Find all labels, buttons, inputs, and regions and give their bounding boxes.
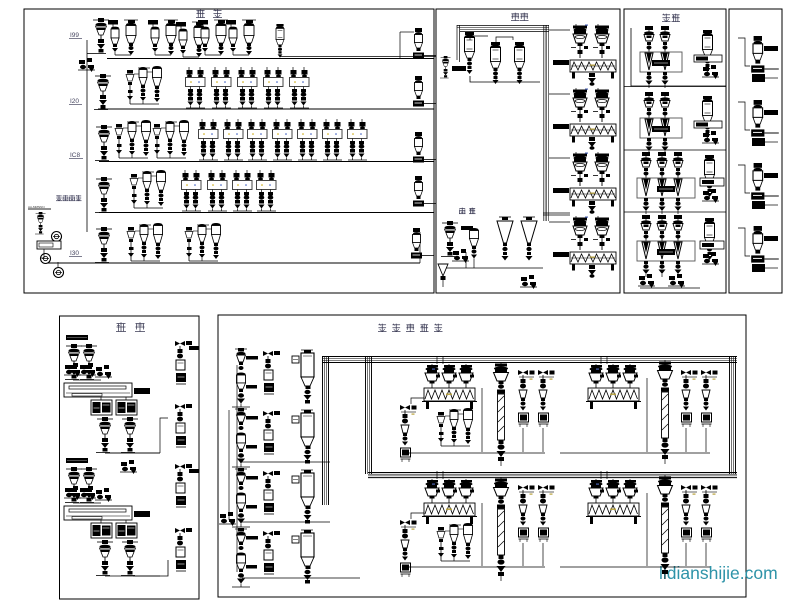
mill unit U4-2 (208, 170, 228, 211)
section box: crushing (fen sui) (24, 9, 434, 293)
wire mod row3 (624, 211, 726, 213)
wire hp3 link (549, 157, 570, 159)
carb right label (189, 346, 199, 350)
post colA row3 (232, 468, 258, 527)
label yu liu xin zeng (reserved) (56, 195, 61, 197)
carb right unit RU4 (175, 528, 192, 571)
drop wires from bus H2 (436, 471, 438, 479)
title: tan hua (carbonization) (117, 323, 126, 325)
wire row5 bottom (45, 262, 420, 264)
svg-text:I30: I30 (70, 250, 79, 257)
wire row5 rise (419, 232, 421, 263)
feed group FG3b (153, 120, 189, 158)
crusher CR3 (176, 22, 206, 57)
mill unit U3-6 (323, 119, 343, 160)
bar box (37, 241, 61, 249)
V-cone hopper V1 (497, 217, 513, 261)
small cluster under row1 feeder (78, 58, 95, 72)
hp4 label box (553, 252, 569, 257)
tiny text line (28, 208, 51, 210)
reactor R1 (465, 32, 475, 74)
carbonization half 2 (66, 458, 88, 463)
utility unit UT2 (751, 100, 779, 137)
mod bottom unit MB2 (668, 274, 685, 288)
mod right cluster RC3 (705, 155, 715, 197)
post colA row1 (232, 348, 258, 407)
post-treatment half top (422, 364, 477, 409)
post colB row4 (263, 531, 280, 574)
carbonization half 1 (66, 335, 88, 340)
tall unit U1-5 (276, 24, 284, 58)
reactor bus vertical double (456, 25, 458, 60)
post left hwires (242, 461, 330, 463)
carb right unit RU2 (175, 404, 192, 447)
mill unit U3-5 (298, 119, 318, 160)
wire mod row1 (631, 28, 726, 86)
wire row2 bottom (98, 108, 434, 110)
mod unit M2 (640, 92, 682, 154)
post colC row4 (292, 530, 314, 584)
reactor bus top (457, 25, 549, 27)
bus V3 (729, 357, 731, 474)
bottom blob cluster (520, 275, 537, 289)
crusher CR5 (226, 20, 256, 55)
side unit S5 (411, 228, 434, 259)
post colA row2 (232, 408, 258, 467)
wire asphalt bottom (445, 267, 543, 269)
reaction mid feeder (440, 56, 451, 78)
asphalt feeder (441, 221, 458, 257)
side unit S4 (413, 176, 436, 207)
crusher CR2 (148, 20, 178, 55)
feed group FG3a (115, 120, 151, 158)
post left vwire (236, 365, 238, 572)
wire row1 left (86, 40, 88, 232)
bus V2 (365, 357, 367, 474)
feed group FG4 (130, 170, 166, 208)
wire left cluster (40, 249, 44, 258)
blower B1 (52, 232, 62, 242)
mod unit M1 (640, 26, 682, 88)
mill unit U2-5 (290, 67, 310, 108)
asphalt cyclone (470, 228, 479, 268)
side unit S3 (413, 132, 436, 163)
wire row4 bottom (99, 212, 434, 214)
svg-text:lidianshijie.com: lidianshijie.com (659, 563, 778, 583)
svg-text:IC8: IC8 (70, 152, 81, 159)
bus H1 (322, 356, 737, 358)
mill unit U2-1 (186, 67, 206, 108)
feed group FG2 (126, 66, 162, 104)
hopper pair HP2 (570, 88, 616, 150)
post colC row2 (292, 410, 314, 464)
svg-text:AA-MMNNN: AA-MMNNN (28, 205, 45, 209)
mill unit U4-4 (257, 170, 277, 211)
post colB row3 (263, 471, 280, 514)
hopper pair HP3 (570, 152, 616, 214)
title: cheng pin hou chu li (post-treatment) (378, 324, 386, 326)
wire row1 bottom (107, 58, 434, 60)
title: fen sui (crushing) (196, 9, 204, 11)
feeder F1-1 (92, 18, 109, 54)
hopper pair HP1 (570, 24, 616, 86)
reactor R3 (515, 42, 525, 84)
label li qing (asphalt) (459, 207, 465, 209)
mill unit U2-4 (264, 67, 284, 108)
reactor R2 (491, 42, 501, 84)
section box: modification (gai xing) (624, 9, 726, 293)
trunk bundle vertical (543, 25, 545, 221)
title: gai xing (modification) (662, 14, 670, 16)
post left stub (219, 512, 236, 526)
wire hp2 link (549, 93, 570, 95)
wire mod row2 (624, 149, 726, 151)
feed group FG5a (127, 223, 163, 261)
post colA row4 (232, 528, 258, 587)
post-treatment half bottom (422, 479, 477, 524)
blower B2 (41, 254, 51, 264)
mod bottom unit MB1 (638, 274, 655, 288)
floater cluster (120, 460, 137, 474)
carb right unit RU1 (175, 341, 192, 384)
bus V1 (322, 357, 324, 505)
section box: right utility column (729, 9, 782, 293)
feeder F3-1 (95, 125, 112, 161)
title: fan ying (reaction) (511, 13, 519, 15)
feeder small (35, 212, 46, 234)
section box: carbonization (tan hua) (60, 316, 200, 599)
mill unit U4-3 (233, 170, 253, 211)
post colC row3 (292, 470, 314, 524)
wire row3 bottom (99, 161, 434, 163)
feeder F4-1 (95, 177, 112, 213)
blower B3 (54, 268, 64, 278)
mod right cluster RC4 (705, 218, 715, 260)
wire row1 to side unit (399, 32, 401, 58)
utility unit UT1 (751, 36, 779, 73)
post colB row1 (263, 351, 280, 394)
mod right cluster RC2 (703, 96, 713, 138)
mill unit U4-1 (182, 170, 202, 211)
post colB row2 (263, 411, 280, 454)
svg-text:I99: I99 (70, 32, 79, 39)
post colC row1 (292, 350, 314, 404)
mill unit U3-7 (348, 119, 368, 160)
V-cone hopper V2 (521, 217, 537, 261)
bus H2 (368, 472, 737, 474)
mod right cluster RC1 (703, 30, 713, 72)
side unit S1 (413, 28, 436, 59)
crusher CR4 (198, 20, 228, 55)
wire reactors bottom (470, 76, 540, 82)
drop wires from bus H1 (436, 356, 438, 364)
mod unit M3 (637, 152, 695, 214)
side unit S2 (413, 76, 436, 107)
wire hp1 link (549, 29, 570, 31)
utility unit UT3 (751, 163, 779, 200)
asphalt filter triangle (438, 264, 448, 276)
mod unit M4 (637, 215, 695, 277)
mill unit U3-4 (273, 119, 293, 160)
utility unit UT4 (751, 226, 779, 263)
mill unit U3-2 (224, 119, 244, 160)
feed group FG5b (185, 223, 221, 261)
wire hp4 link (549, 221, 570, 223)
hp2 label box (553, 124, 569, 129)
feeder F2-1 (94, 74, 111, 110)
carb right label2 (189, 469, 199, 473)
reaction mid label box (452, 66, 466, 71)
feeder F5-1 (95, 227, 112, 263)
svg-text:I20: I20 (70, 98, 79, 105)
carb wire right1 (160, 418, 168, 453)
mill unit U2-3 (238, 67, 258, 108)
section box: reaction (fan ying) (436, 9, 620, 293)
carb connect wires (133, 560, 168, 576)
hp1 label box (553, 60, 569, 65)
carb right unit RU3 (175, 464, 192, 507)
section box: product post-treatment (218, 315, 746, 597)
crusher CR1 (108, 20, 138, 55)
hp3 label box (553, 188, 569, 193)
wire mod bottom (640, 287, 700, 289)
reaction wire arc (470, 36, 488, 40)
mill unit U3-1 (199, 119, 219, 160)
asphalt pump blobs (452, 249, 469, 263)
mill unit U2-2 (212, 67, 232, 108)
hopper pair HP4 (570, 216, 616, 278)
mill unit U3-3 (248, 119, 268, 160)
wire bundle from crushing (280, 56, 436, 58)
asphalt label box (461, 226, 473, 230)
